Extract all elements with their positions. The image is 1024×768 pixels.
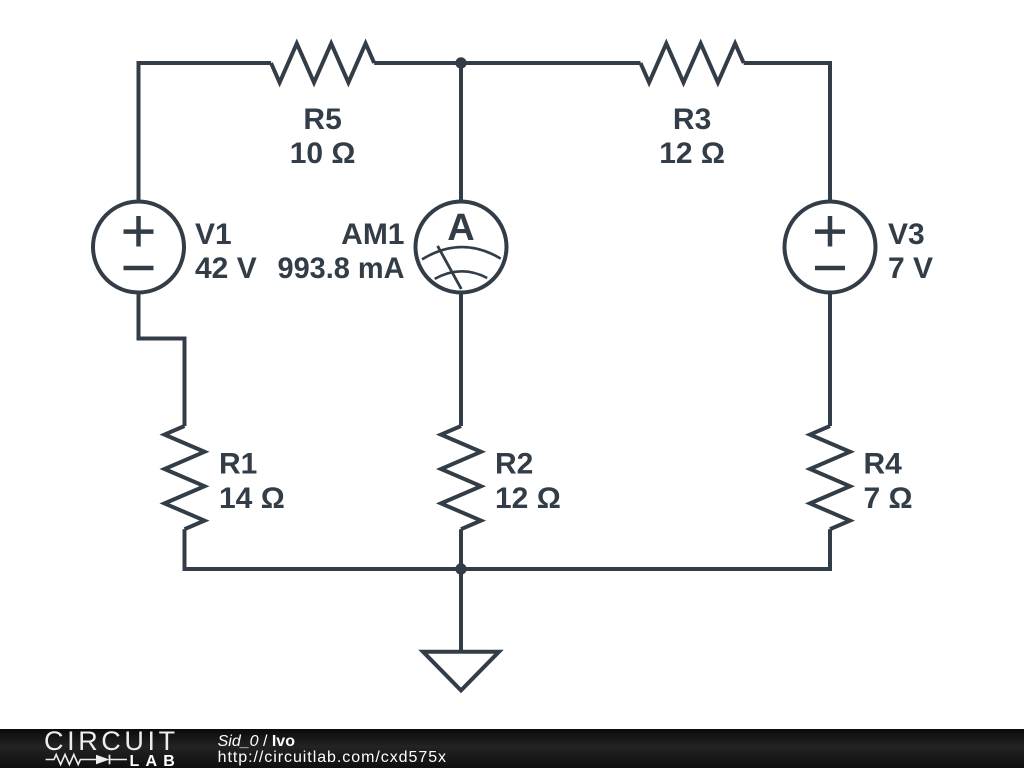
voltage source V1 — [93, 202, 257, 293]
svg-text:R1: R1 — [219, 448, 257, 481]
svg-text:R4: R4 — [864, 448, 903, 481]
resistor R1 — [165, 426, 285, 529]
svg-text:7 V: 7 V — [888, 252, 933, 285]
svg-text:42 V: 42 V — [195, 252, 257, 285]
svg-text:12 Ω: 12 Ω — [659, 137, 725, 170]
svg-text:A: A — [447, 207, 474, 249]
wire — [744, 63, 830, 202]
svg-text:12 Ω: 12 Ω — [495, 482, 561, 515]
CircuitLab logo doodle — [46, 755, 96, 765]
svg-text:7 Ω: 7 Ω — [864, 482, 913, 515]
voltage source V3 — [785, 202, 934, 293]
svg-text:R3: R3 — [673, 103, 711, 136]
svg-text:http://circuitlab.com/cxd575x: http://circuitlab.com/cxd575x — [218, 749, 447, 766]
svg-text:CIRCUIT: CIRCUIT — [44, 726, 179, 756]
svg-text:Sid_0 / Ivo: Sid_0 / Ivo — [218, 733, 296, 750]
ammeter AM1 — [278, 63, 507, 293]
wire — [139, 63, 272, 202]
svg-text:V3: V3 — [888, 218, 925, 251]
node B (bottom junction) — [455, 563, 466, 574]
wire — [459, 292, 463, 426]
wire — [183, 529, 187, 571]
node A (top junction) — [455, 57, 466, 68]
svg-text:14 Ω: 14 Ω — [219, 482, 285, 515]
svg-text:993.8 mA: 993.8 mA — [278, 252, 405, 285]
svg-text:LAB: LAB — [130, 753, 181, 768]
resistor R5 — [271, 44, 374, 171]
svg-text:AM1: AM1 — [341, 218, 404, 251]
svg-text:10 Ω: 10 Ω — [290, 137, 356, 170]
ground — [423, 569, 499, 690]
wire — [828, 292, 832, 426]
svg-text:V1: V1 — [195, 218, 232, 251]
wire — [139, 292, 185, 426]
wire — [374, 61, 640, 65]
svg-text:R5: R5 — [303, 103, 341, 136]
svg-text:R2: R2 — [495, 448, 533, 481]
resistor R4 — [810, 426, 913, 529]
resistor R2 — [441, 426, 561, 529]
wire — [459, 529, 463, 569]
wire — [828, 529, 832, 571]
footer bar — [0, 729, 1024, 768]
resistor R3 — [641, 44, 744, 171]
wire (bottom rail) — [183, 567, 833, 571]
